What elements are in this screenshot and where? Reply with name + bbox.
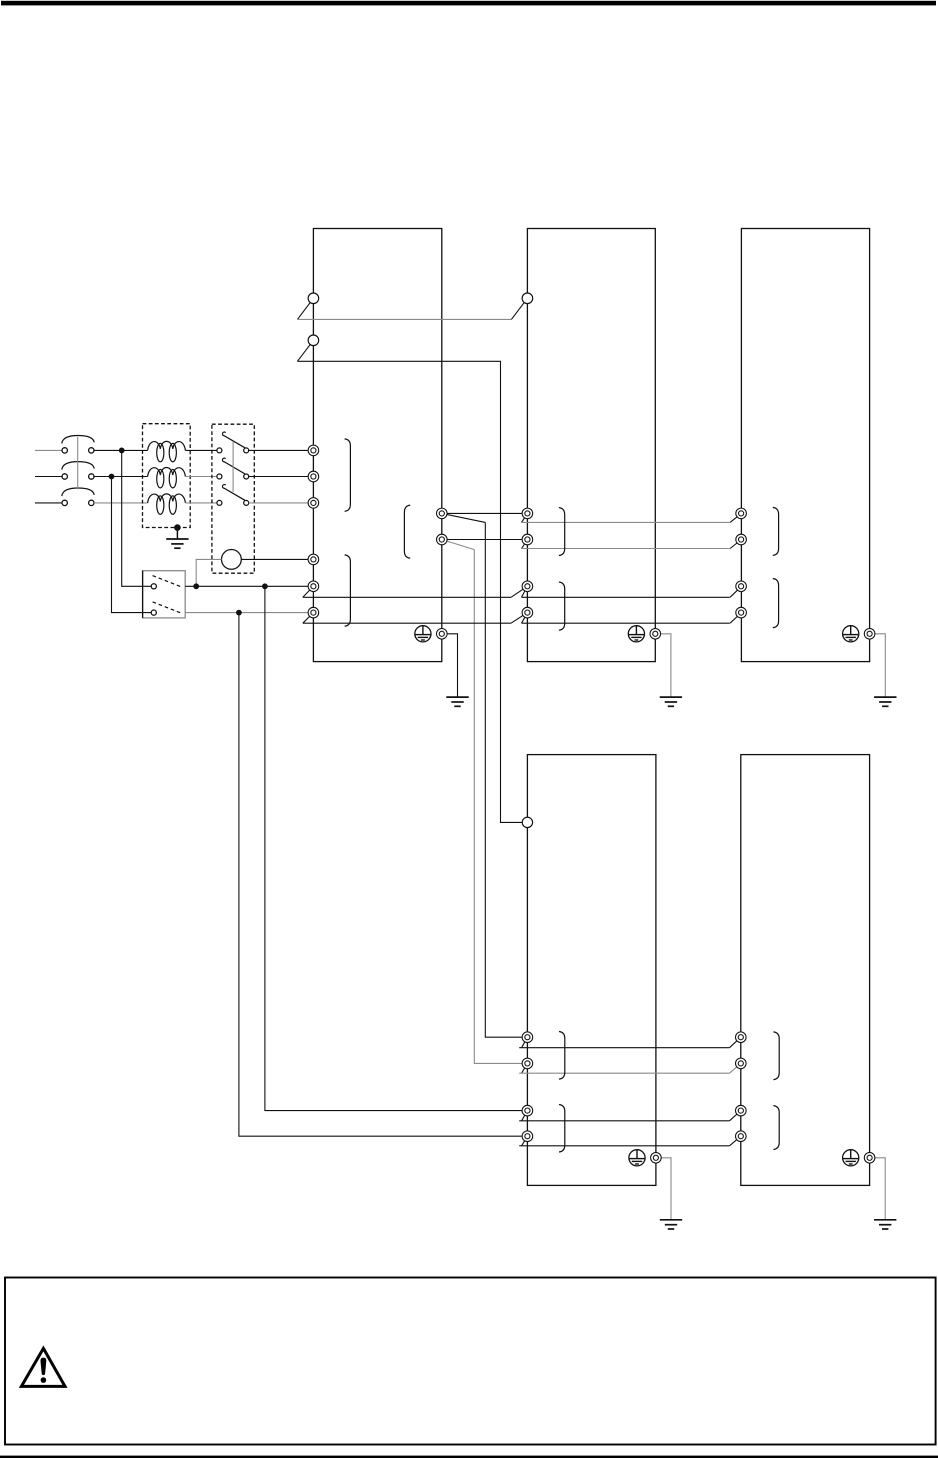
terminal box3 ctrl1 — [736, 581, 747, 592]
protective earth symbol box3 — [843, 626, 859, 642]
node control bus junction B — [236, 610, 242, 616]
wire bus U riser box3 — [730, 513, 741, 522]
wire bus box4-box5 r2 — [519, 1072, 729, 1074]
wire box2 flag ctrl1 — [522, 586, 528, 597]
control switch box left edge — [142, 571, 144, 618]
terminal box2 ctrl1 — [522, 581, 533, 592]
wire box1 drop to box4 U diagonal — [442, 513, 486, 522]
cable bracket box4 group 1 — [559, 1032, 565, 1080]
wire breaker to filter phase 3 — [94, 502, 148, 504]
wire contactor out phase 2 — [249, 476, 314, 478]
wire ctrl bus 1 segment b — [522, 596, 730, 598]
ground symbol box4 — [660, 1220, 682, 1229]
ground symbol filter — [166, 539, 188, 548]
inductor coil phase 2 — [148, 468, 186, 477]
wire bus1 riser to box2 — [511, 298, 527, 319]
wire control drop A — [265, 586, 528, 1110]
unit box 2 drive unit — [527, 229, 655, 662]
node MC coil junction — [193, 583, 199, 589]
cable bracket box1 output group — [404, 505, 410, 558]
unit box 5 drive unit — [741, 755, 870, 1186]
terminal box1 MC — [308, 554, 319, 565]
protective earth symbol box2 — [628, 626, 644, 642]
wire box1 to box2 phase U — [442, 512, 528, 514]
top header bar — [1, 1, 936, 6]
wire switch out 1 — [185, 585, 313, 587]
wire filter to contactor phase 2 — [185, 476, 219, 478]
wire earth lead box4 — [656, 1158, 671, 1220]
wire bus box4-box5 r1 — [519, 1047, 729, 1049]
terminal box1 ctrl2 — [308, 607, 319, 618]
line filter FL dashed enclosure — [143, 424, 191, 528]
bottom edge bar — [0, 1456, 938, 1458]
wire bus r4 riser box5 — [730, 1136, 741, 1146]
wire ctrl bus 1 riser box2 — [511, 586, 527, 597]
terminal box2 U — [522, 508, 533, 519]
switch pole 1 blade — [153, 576, 181, 587]
node phase1 junction — [119, 448, 125, 454]
warning exclamation mark — [41, 1358, 46, 1374]
wire box1 drop to box4 V — [474, 550, 527, 1064]
connector circle A1 on box1 — [308, 293, 319, 304]
filter ground node — [174, 524, 181, 531]
earth terminal box4 — [651, 1153, 662, 1164]
terminal box5 U — [736, 1032, 747, 1043]
wire phase2 tap down — [112, 477, 152, 613]
cable bracket box1 power group — [345, 439, 351, 511]
filter ground stem — [176, 528, 178, 539]
wire box2 flag ctrl2 — [522, 613, 528, 624]
unit box 3 drive unit — [741, 229, 869, 662]
breaker mechanical link — [77, 437, 79, 490]
cable bracket box5 group 1 — [773, 1032, 779, 1080]
wire bus r2 riser box5 — [730, 1063, 741, 1073]
wire box1 to box2 phase V — [442, 539, 528, 541]
node phase2 junction — [109, 474, 115, 480]
control switch box — [143, 571, 186, 618]
wire bus V riser box3 — [730, 540, 741, 549]
contactor pole 3 — [217, 500, 222, 505]
protective earth symbol box1 — [415, 626, 431, 642]
wire L3 input stub — [35, 502, 62, 504]
terminal box3 V — [736, 534, 747, 545]
switch pole 2 blade — [153, 602, 181, 613]
terminal box1 out U — [437, 508, 448, 519]
terminal box1 T — [308, 498, 319, 509]
contactor MC dashed enclosure — [212, 424, 254, 573]
wire bus V box2-box3 — [521, 548, 730, 550]
terminal box3 U — [736, 508, 747, 519]
wire contactor out phase 1 — [249, 449, 314, 451]
terminal box1 ctrl1 — [308, 581, 319, 592]
terminal box3 ctrl2 — [736, 607, 747, 618]
wire ctrl bus 1 segment a — [303, 596, 511, 598]
wire box4 flag 1 — [522, 1037, 528, 1048]
wire ctrl bus 2 riser box3 — [730, 613, 741, 624]
unit box 1 power supply — [313, 229, 441, 662]
terminal box4 U — [522, 1032, 533, 1043]
wire bus box4-box5 r3 — [519, 1120, 729, 1122]
wire filter to contactor phase 1 — [185, 449, 219, 451]
wire contactor out phase 3 — [249, 502, 314, 504]
wire earth lead box3 — [870, 634, 886, 697]
connector circle C on box4 — [522, 817, 532, 827]
wire bus U box2-box3 — [521, 521, 730, 523]
cable bracket box2 control group — [559, 582, 565, 630]
wire box4 flag 3 — [522, 1111, 528, 1121]
inductor coil phase 3 — [148, 494, 186, 503]
terminal box4 ctrl1 — [522, 1105, 533, 1116]
wire contactor control bus 2 diagonal — [297, 340, 313, 361]
terminal box4 V — [522, 1058, 533, 1069]
earth terminal box2 — [650, 629, 661, 640]
wire phase1 tap down — [122, 450, 151, 586]
terminal box5 V — [736, 1058, 747, 1069]
wire L2 input stub — [35, 476, 62, 478]
wire breaker to filter phase 1 — [94, 449, 148, 451]
wire breaker to filter phase 2 — [94, 476, 148, 478]
switch pole 1 contact — [151, 584, 156, 589]
ground symbol box1 — [446, 697, 468, 706]
cable bracket box3 power group — [773, 507, 779, 555]
cable bracket box2 power group — [559, 508, 565, 556]
wire box2 flag U — [522, 513, 528, 522]
circuit breaker NFB pole 2 — [62, 462, 94, 470]
contactor coil MC — [222, 550, 242, 570]
wire box1 flag ctrl2 — [303, 613, 314, 624]
wire contactor control bus 1 diagonal — [297, 298, 313, 319]
wire filter to contactor phase 3 — [185, 502, 219, 504]
wire control drop B — [239, 613, 528, 1137]
cable bracket box3 control group — [773, 579, 779, 628]
connector circle A2 on box1 — [308, 335, 319, 346]
wire ctrl bus 2 riser box2 — [511, 613, 527, 624]
wire contactor control bus 1 — [297, 318, 511, 320]
wire switch out 2 — [185, 612, 313, 614]
node control bus junction A — [262, 583, 268, 589]
switch pole 2 contact — [151, 610, 156, 615]
ground symbol box3 — [874, 697, 896, 706]
wire box1 drop to box4 V diagonal — [442, 540, 475, 550]
wire earth lead box1 — [442, 634, 458, 697]
terminal box5 ctrl1 — [736, 1105, 747, 1116]
terminal box1 R — [308, 445, 319, 456]
ground symbol box5 — [874, 1220, 896, 1229]
warning triangle — [21, 1348, 65, 1386]
wire ctrl bus 2 segment a — [303, 622, 511, 624]
wire MC coil left lead — [196, 559, 221, 586]
circuit breaker NFB pole 1 — [62, 436, 94, 444]
wire bus r3 riser box5 — [730, 1111, 741, 1121]
wire L1 input stub — [35, 449, 62, 451]
wire box2 flag V — [522, 540, 528, 549]
protective earth symbol box4 — [629, 1150, 645, 1166]
unit box 4 drive unit — [527, 755, 656, 1186]
wire box4 flag 2 — [522, 1063, 528, 1073]
warning note box — [5, 1278, 936, 1445]
wire ctrl bus 2 segment b — [522, 622, 730, 624]
earth terminal box1 — [437, 629, 448, 640]
wire box1 drop to box4 U — [485, 522, 527, 1037]
cable bracket box1 control group — [345, 555, 351, 626]
terminal box4 ctrl2 — [522, 1131, 533, 1142]
protective earth symbol box5 — [843, 1150, 859, 1166]
terminal box1 S — [308, 471, 319, 482]
wire earth lead box2 — [655, 634, 671, 697]
contactor mechanical link — [232, 441, 234, 492]
terminal box5 ctrl2 — [736, 1131, 747, 1142]
wire contactor control bus 2 — [297, 361, 527, 822]
ground symbol box2 — [660, 697, 682, 706]
contactor pole 2 — [217, 474, 222, 479]
wire bus r1 riser box5 — [730, 1037, 741, 1048]
cable bracket box5 group 2 — [773, 1106, 779, 1150]
wire MC coil right lead — [241, 558, 313, 560]
wire ctrl bus 1 riser box3 — [730, 586, 741, 597]
wire box4 flag 4 — [522, 1136, 528, 1146]
earth terminal box5 — [864, 1153, 875, 1164]
terminal box2 V — [522, 534, 533, 545]
connector circle B1 on box2 — [522, 293, 533, 304]
earth terminal box3 — [864, 629, 875, 640]
wire bus box4-box5 r4 — [519, 1145, 729, 1147]
inductor coil phase 1 — [148, 441, 186, 450]
terminal box1 out V — [437, 534, 448, 545]
cable bracket box4 group 2 — [559, 1105, 565, 1153]
wire box1 flag ctrl1 — [303, 586, 314, 597]
contactor pole 1 — [217, 448, 222, 453]
circuit breaker NFB pole 3 — [62, 488, 94, 496]
terminal box2 ctrl2 — [522, 607, 533, 618]
wire earth lead box5 — [870, 1158, 886, 1220]
